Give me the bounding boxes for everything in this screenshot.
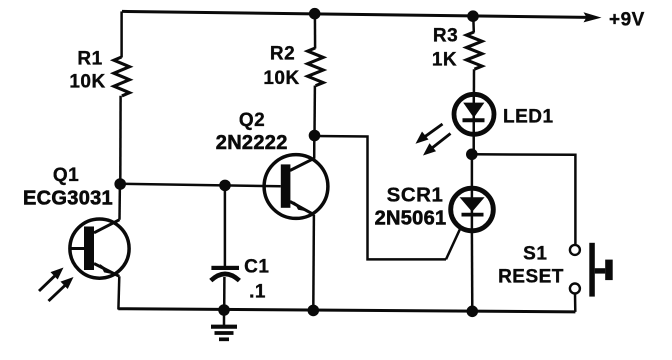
light arrow out of LED1 (upper): [416, 124, 443, 144]
wire: Q1 emitter to ground rail: [117, 276, 120, 309]
resistor R1: [114, 57, 130, 96]
svg-text:R2: R2: [270, 44, 295, 65]
wire: SCR cathode to ground rail: [471, 233, 474, 312]
svg-text:S1: S1: [523, 244, 547, 265]
wire: Q2 emitter to ground rail: [312, 215, 315, 311]
wire: LED node to SCR anode: [471, 154, 474, 188]
light arrow out of LED1 (lower): [423, 134, 451, 156]
switch S1 terminal (top): [570, 245, 580, 255]
svg-text:ECG3031: ECG3031: [23, 188, 113, 210]
wire: R3 bottom to LED1: [473, 69, 476, 93]
svg-text:10K: 10K: [263, 68, 299, 89]
svg-text:Q1: Q1: [53, 165, 79, 186]
LED LED1: [454, 94, 494, 154]
wire: C1 bottom lead: [223, 277, 226, 310]
junction node LED cathode / S1 branch: [466, 149, 478, 161]
switch S1 terminal (bottom): [570, 284, 580, 294]
light arrow into Q1 (upper): [39, 268, 64, 292]
junction node Q2 emitter / ground rail: [308, 305, 320, 317]
junction node ground rail / C1: [218, 304, 230, 316]
svg-text:R1: R1: [77, 49, 102, 70]
light arrow into Q1 (lower): [49, 277, 74, 301]
svg-text:RESET: RESET: [498, 267, 564, 288]
wire: LED node to S1 top terminal: [472, 154, 576, 245]
svg-text:2N5061: 2N5061: [375, 208, 447, 230]
wire: base wire node to Q2 base: [120, 184, 281, 187]
wire: +9V top supply rail: [122, 11, 602, 22]
junction node R2 / Q2 collector / SCR gate wire: [309, 130, 321, 142]
wire: SCR gate angled segment: [446, 227, 461, 259]
svg-text:.1: .1: [249, 282, 266, 303]
junction node rail / R3: [467, 10, 479, 22]
svg-text:SCR1: SCR1: [387, 184, 444, 207]
junction node C1 top: [219, 180, 231, 192]
capacitor C1: [211, 266, 240, 281]
transistor Q1 ECG3031 (phototransistor): [70, 219, 129, 278]
wire: C1 top lead: [224, 185, 227, 266]
svg-text:10K: 10K: [69, 72, 105, 93]
wire: rail to R1 top: [120, 11, 123, 57]
junction node rail / R2: [309, 8, 321, 20]
resistor R2: [308, 48, 324, 86]
wire: node down to Q1 collector: [118, 184, 121, 220]
wire: ground rail (bottom): [118, 309, 575, 312]
svg-text:C1: C1: [244, 257, 269, 278]
wire: rail to R2 top: [314, 14, 317, 49]
svg-text:R3: R3: [433, 26, 458, 47]
resistor R3: [466, 32, 482, 69]
wire: node to Q2 collector: [313, 136, 316, 159]
svg-text:LED1: LED1: [503, 107, 554, 128]
junction node R1 / Q1 collector / Q2 base: [114, 178, 126, 190]
wire: SCR gate wire from collector node: [315, 136, 447, 259]
transistor Q2 2N2222: [264, 155, 328, 219]
ground symbol: [211, 310, 237, 339]
wire: R1 bottom to node: [119, 96, 122, 184]
wire: rail to R3 top: [472, 16, 475, 32]
wire: R2 bottom to collector node: [313, 86, 316, 136]
SCR SCR1: [451, 188, 494, 233]
svg-text:+9V: +9V: [609, 10, 645, 31]
svg-text:1K: 1K: [432, 50, 457, 71]
svg-text:Q2: Q2: [239, 110, 265, 131]
wire: S1 bottom terminal to ground rail: [574, 293, 577, 312]
svg-text:2N2222: 2N2222: [216, 132, 288, 154]
junction node SCR cathode / ground rail: [467, 306, 479, 318]
switch S1 plunger: [589, 243, 612, 297]
